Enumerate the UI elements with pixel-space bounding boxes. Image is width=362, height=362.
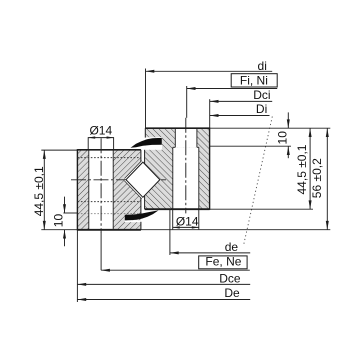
Ø14 bottom arrows (outward)	[173, 226, 180, 228]
dimension line Ø14 bottom	[173, 226, 199, 228]
roller axis centerline (horizontal dash-dot, under diamond)	[71, 179, 166, 181]
de arrow	[170, 251, 179, 254]
dimension line 10 left (upper segment)	[64, 197, 66, 213]
right 56 arrows	[326, 128, 329, 137]
Di arrow	[210, 114, 219, 117]
dimension line de	[170, 252, 250, 254]
top seal notch in outer ring (white)	[145, 137, 162, 150]
top seal (black)	[131, 138, 162, 148]
dimension line 10 left (lower segment)	[64, 230, 66, 247]
outer ring (right, hatched)	[145, 128, 210, 209]
hidden line inner ring (counterbore)	[78, 213, 141, 215]
raceway clearance gap (white) along upper-left and lower-left diamond edges	[125, 161, 142, 179]
svg-text:10: 10	[276, 131, 290, 145]
svg-text:De: De	[224, 286, 240, 300]
extension line de (inner ring OD)	[169, 209, 171, 255]
outer ring outline edges	[145, 128, 210, 210]
dimension line di	[146, 70, 273, 72]
outer ring bolt hole upper Ø12 section (white)	[175, 128, 197, 148]
dimension line Di	[210, 115, 270, 117]
svg-text:di: di	[258, 59, 267, 73]
di arrow	[146, 70, 155, 73]
extension line Fi,Ni (outer ring hole axis)	[186, 86, 188, 118]
bottom seal (black)	[125, 210, 159, 220]
extension line inner ring bottom face	[41, 229, 77, 231]
dimension line Dci	[210, 100, 273, 102]
right 10 arrows	[287, 119, 290, 128]
svg-text:Dce: Dce	[219, 271, 241, 285]
outer ring bolt hole lower Ø14 section (white)	[173, 147, 199, 209]
extension line outer ring counterbore depth	[210, 145, 291, 147]
Dci arrow	[210, 100, 219, 103]
svg-text:56 ±0,2: 56 ±0,2	[310, 158, 324, 198]
svg-text:Di: Di	[256, 102, 267, 116]
dimension line Dce	[77, 283, 250, 285]
dimension line De	[77, 299, 250, 301]
svg-text:Dci: Dci	[253, 88, 270, 102]
extension line di (outer ring bore)	[145, 69, 147, 129]
inner ring bolt hole (white)	[89, 149, 113, 230]
hidden dotted lines on inner ring	[78, 158, 141, 214]
centerline inner ring hole	[100, 138, 102, 232]
centerlines (dash-dot)	[101, 118, 186, 233]
extension line Dci/Di (outer ring OD)	[209, 99, 211, 128]
extension line Dce/De (inner ring bore)	[76, 231, 78, 303]
Fi,Ni arrow	[187, 87, 196, 90]
extension line inner ring top face	[41, 149, 77, 151]
thin clearance sliver below bottom seal (white)	[125, 220, 141, 222]
Fi,Ni frame box	[231, 74, 277, 87]
inner ring raceway edge lines	[125, 161, 142, 179]
svg-text:Ø14: Ø14	[176, 215, 199, 229]
inner ring (left, hatched)	[77, 150, 140, 230]
svg-text:de: de	[225, 240, 239, 254]
extension line Fe,Ne (inner ring hole axis)	[100, 232, 102, 270]
Dce arrow	[77, 283, 86, 286]
dotted divider leader line	[244, 117, 273, 246]
dimension line Ø14 top	[88, 137, 113, 139]
hidden line inner ring (middle)	[78, 201, 141, 203]
inner ring outline edges	[77, 149, 140, 230]
dimension line 56 ±0,2	[326, 128, 328, 230]
centerline outer ring hole	[185, 118, 187, 214]
extension line inner ring counterbore depth	[63, 212, 77, 214]
svg-text:44,5 ±0,1: 44,5 ±0,1	[295, 144, 309, 194]
extension lines Ø14 inner ring hole	[87, 137, 89, 150]
extension line inner ring bottom face (long, to 56 dim)	[141, 229, 330, 231]
dimension line 10 right (lower segment)	[287, 146, 289, 158]
extension lines Ø14 outer ring hole	[172, 209, 174, 229]
Fe,Ne arrow	[101, 269, 110, 272]
left 44,5 arrows	[43, 150, 46, 159]
dimension line Fi, Ni	[187, 88, 278, 90]
svg-text:10: 10	[51, 214, 65, 228]
roller (diamond, white)	[126, 162, 160, 197]
dimension line Fe, Ne	[101, 269, 250, 271]
extension line outer ring top face	[210, 127, 331, 129]
Ø14 top arrows (outward)	[88, 136, 95, 138]
svg-text:Fi, Ni: Fi, Ni	[240, 73, 268, 87]
extension line outer ring bottom face	[210, 208, 313, 210]
arrowheads	[43, 70, 329, 301]
De arrow	[77, 298, 86, 301]
right 44,5 arrows	[309, 128, 312, 137]
hidden line inner ring (upper)	[78, 157, 141, 159]
left 10 arrows	[63, 204, 66, 213]
svg-text:Ø14: Ø14	[89, 124, 112, 138]
Fe,Ne frame box	[199, 256, 247, 269]
svg-text:44,5 ±0,1: 44,5 ±0,1	[32, 166, 46, 216]
dimension line 10 right (upper segment)	[287, 112, 289, 128]
svg-text:Fe, Ne: Fe, Ne	[205, 254, 241, 268]
dimension line 44,5 ±0,1 left	[43, 150, 45, 230]
gap strip between rings (white)	[141, 149, 144, 229]
dimension line 44,5 ±0,1 right	[309, 128, 311, 209]
